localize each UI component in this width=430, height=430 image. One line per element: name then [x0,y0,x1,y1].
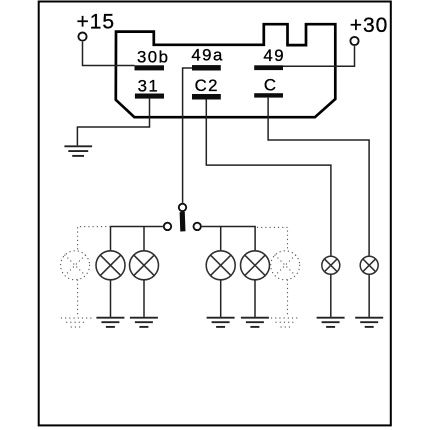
lamp L3 right turn signal [206,251,235,280]
wire lamp L1 to ground [110,280,112,317]
ground lamp L1 [96,318,124,327]
dotted ground optional left lamp [61,318,92,327]
wire switch left contact to left lamps [111,227,163,251]
wire terminal C to indicator lamp L6 [268,98,369,256]
svg-text:30b: 30b [137,48,170,67]
wire lamp L4 to ground [254,280,256,317]
wire lamp L2 to ground [143,280,145,317]
ground symbol at terminal 31 [64,146,92,156]
ground lamp L4 [241,318,269,327]
ground lamp L6 [355,318,383,327]
+30 terminal circle [350,37,358,45]
wire lamp L5 to ground [330,275,332,317]
optional trailer lamp left (dotted) [61,251,90,280]
wire switch right contact to right lamps [202,227,255,251]
wire +15 to terminal 30b [83,42,135,66]
ground lamp L2 [130,318,158,327]
dotted wire optional right lamp [258,227,288,315]
terminal 30b blade [135,65,165,70]
terminal C2 blade [192,94,221,100]
lamp L4 right turn signal [241,251,270,280]
dotted wire optional left lamp [78,227,110,316]
terminal 49a blade [192,65,221,70]
svg-text:49: 49 [263,46,285,65]
ground lamp L3 [207,318,235,327]
relay flasher unit body outline [116,24,335,117]
wire lamp L3 to ground [220,280,222,317]
indicator lamp L6 [360,256,378,274]
switch left contact [164,223,171,230]
svg-text:C: C [264,76,276,95]
wire terminal C2 to indicator lamp L5 [206,100,331,256]
wire branch to lamp L3 [220,227,222,251]
svg-text:31: 31 [138,76,160,95]
switch right contact [194,223,201,230]
+15 terminal circle [78,33,86,41]
dotted ground optional right lamp [272,318,299,327]
turn-signal switch pivot [179,204,186,211]
indicator lamp L5 [322,256,340,274]
lamp L1 left turn signal [96,251,125,280]
svg-text:49a: 49a [191,46,224,65]
terminal 49 blade [254,65,283,70]
lamp L2 left turn signal [130,251,159,280]
wire branch to lamp L2 [143,227,145,251]
svg-text:+15: +15 [76,11,115,34]
terminal C blade [254,93,283,97]
wire terminal 49a to switch pivot [183,68,192,203]
svg-text:+30: +30 [350,14,389,37]
wire terminal 49 to +30 [283,46,355,66]
terminal 31 blade [135,94,164,99]
wire terminal 31 to ground [77,99,149,146]
turn-signal switch lever [180,212,186,232]
optional trailer lamp right (dotted) [271,251,300,280]
wire lamp L6 to ground [368,275,370,317]
svg-text:C2: C2 [195,76,219,95]
ground lamp L5 [317,318,345,327]
